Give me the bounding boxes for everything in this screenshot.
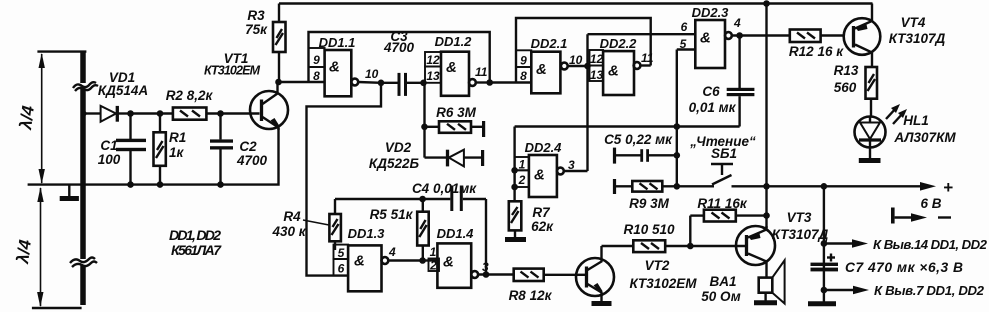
ground C7 [808,301,836,306]
svg-text:&: & [329,59,340,76]
svg-text:DD1.1: DD1.1 [319,35,356,50]
pin 6 box DD1.3 [334,259,349,276]
op gate DD1.2 [441,52,476,96]
node dots bottom row [127,181,134,188]
resistor R1 [154,114,166,185]
ground R7 [505,237,526,242]
svg-text:BA1: BA1 [709,274,736,289]
svg-text:C1: C1 [100,138,117,153]
resistor R8 [514,269,576,281]
transistor VT2 [576,246,614,302]
svg-text:9: 9 [313,53,320,67]
svg-text:R12 16 к: R12 16 к [789,44,844,59]
svg-text:R3: R3 [247,8,265,23]
pin 8 box DD1.1 [309,67,325,83]
node plus line / C7 [821,183,828,190]
svg-text:R13: R13 [834,63,859,78]
svg-text:С5 0,22 мк: С5 0,22 мк [604,132,673,147]
pin 9 box DD2.1 [516,50,531,67]
svg-text:АЛ307КМ: АЛ307КМ [893,130,956,145]
svg-text:К Выв.14 DD1, DD2: К Выв.14 DD1, DD2 [873,237,988,252]
svg-text:R5 51к: R5 51к [370,207,414,222]
arrow K vyv 14 [824,239,868,248]
top supply bus [279,2,873,4]
pin 12 box DD1.2 [425,52,441,67]
svg-text:С7 470 мк ×6,3 В: С7 470 мк ×6,3 В [845,260,963,275]
svg-text:SБ1: SБ1 [711,146,737,161]
resistor R11 [690,210,766,246]
svg-text:К Выв.7 DD1, DD2: К Выв.7 DD1, DD2 [874,283,985,298]
ground symbol near antenna [60,185,79,199]
svg-text:R8 12к: R8 12к [509,288,553,303]
arrow K vyv 7 [824,286,869,295]
capacitor C3 [381,73,424,96]
antenna top tick [37,50,86,52]
node DD2.3 out / C6 [736,32,743,39]
svg-text:100: 100 [98,152,121,167]
svg-text:&: & [443,254,454,271]
wire DD2.3 out, pin 4 [732,16,790,36]
svg-text:75к: 75к [245,22,268,37]
gate DD2.1 feedback frame wire [516,18,651,83]
svg-text:С6: С6 [702,84,720,99]
svg-text:R1: R1 [169,130,186,145]
antenna bottom tick [32,307,82,309]
minus terminal [891,208,951,224]
ground BA1 [754,300,777,305]
node R11 right on rail [763,212,770,219]
op gate DD1.4 [437,243,478,287]
svg-text:11: 11 [475,65,488,79]
svg-text:8: 8 [520,69,527,83]
wire to DD1.4 inputs [423,259,438,261]
resistor R7 [509,201,522,238]
svg-text:DD1.2: DD1.2 [435,34,473,49]
svg-text:5: 5 [338,246,345,260]
wire DD1.2 out, pin 11 [475,65,490,83]
svg-text:&: & [446,59,457,76]
svg-text:VT4: VT4 [901,15,926,30]
capacitor C7 [811,254,839,272]
svg-text:R9 3М: R9 3М [629,196,670,211]
svg-text:6: 6 [681,20,688,34]
svg-text:2: 2 [518,173,526,187]
wire collector to DD1.1 [279,81,325,83]
resistor R10 [602,240,746,252]
ground HL1 [859,158,881,163]
svg-text:&: & [700,30,711,47]
diode VD2 [425,150,485,167]
svg-text:КТ3102ЕМ: КТ3102ЕМ [204,64,261,78]
op gate DD1.3 [348,245,388,291]
svg-text:62к: 62к [531,219,554,234]
svg-text:&: & [354,253,365,270]
node R10 / R11 [687,243,694,250]
light arrows HL1 [886,104,907,124]
pin 1 box DD2.4 [515,157,529,172]
node rail / plus line [763,183,770,190]
C7 branch vertical [823,186,825,302]
svg-text:4700: 4700 [236,153,268,168]
svg-text:КТ3102ЕМ: КТ3102ЕМ [630,276,698,291]
wire DD1.1 out, pin 10 [358,67,381,83]
wire DD2.2 out, pin 11 [640,51,653,66]
transistor VT3 [736,226,775,278]
node K vyv 7 [821,287,828,294]
node C5 right [674,152,681,159]
node DD1.2 out [486,79,493,86]
op gate DD1.1 [325,50,359,96]
svg-text:10: 10 [569,53,583,67]
op gate DD2.1 [531,52,567,94]
capacitor C5 [613,148,677,164]
svg-text:430 к: 430 к [271,224,306,239]
op gate DD2.2 [603,51,640,95]
gate DD1.1 feedback frame wire [309,32,490,83]
svg-text:DD2.3: DD2.3 [692,5,730,20]
dimension line lower lambda/4 [37,187,44,307]
svg-text:КТ3107Д: КТ3107Д [889,31,946,46]
transistor VT1 [250,82,288,130]
svg-text:R6 3М: R6 3М [436,105,477,120]
pin 13 box DD1.2 [425,67,441,84]
node C3 / DD1.2 inputs [420,80,427,87]
svg-text:HL1: HL1 [903,113,929,128]
svg-text:1: 1 [430,245,437,259]
resistor R2 [173,108,207,120]
pin 2 box DD2.4 [515,170,529,187]
svg-text:10: 10 [365,67,379,81]
svg-text:&: & [536,61,547,78]
svg-text:11: 11 [641,51,654,65]
svg-text:4700: 4700 [383,40,415,55]
svg-text:5: 5 [680,37,687,51]
op gate DD2.3 [695,20,732,68]
wire DD2.1 out, pin 10 [568,53,588,67]
LED HL1 [855,117,886,159]
svg-text:12: 12 [590,52,604,66]
ground VT2 emitter [592,301,612,306]
capacitor C1 [116,114,146,185]
svg-text:0,01 мк: 0,01 мк [689,100,737,115]
svg-text:КД514А: КД514А [98,83,148,98]
wire DD1.4 out, pin 3 [478,260,514,275]
node after DD1.1 [378,80,385,87]
transistor VT4 [844,4,881,68]
svg-text:КД522Б: КД522Б [369,156,420,171]
svg-text:2: 2 [429,259,437,273]
node R6 left [421,124,428,131]
wire DD1.2 inputs down to R6/VD2 [423,83,425,158]
resistor R4 [329,199,341,250]
pin 2 box DD1.4 [429,259,440,273]
svg-text:1к: 1к [169,145,185,160]
wire DD1.1 out down-left to DD1.3 [307,83,382,276]
svg-text:R4: R4 [283,209,301,224]
pin 5 box DD1.3 [334,245,349,260]
wire R4 top to C4 [335,198,450,200]
node pin1 DD2.4 [511,167,518,174]
op gate DD2.4 [529,155,564,197]
svg-text:DD1.4: DD1.4 [437,226,475,241]
svg-text:R7: R7 [532,205,551,220]
wire DD1.2 out to DD2.1 [490,81,532,83]
svg-text:R2 8,2к: R2 8,2к [166,88,214,103]
supply rail vertical [765,4,767,229]
svg-text:6 В: 6 В [920,196,941,211]
node DD1.3 out [419,257,426,264]
svg-text:C2: C2 [239,139,257,154]
svg-text:3: 3 [568,158,575,172]
svg-text:DD2.2: DD2.2 [600,36,638,51]
svg-text:R11 16к: R11 16к [697,196,748,211]
svg-text:VT2: VT2 [645,258,670,273]
svg-text:К561ЛА7: К561ЛА7 [171,242,222,258]
node DD1.4 out / C4 [483,271,490,278]
svg-text:VD2: VD2 [385,140,412,155]
svg-text:R10 510: R10 510 [623,222,675,237]
svg-text:&: & [608,63,619,80]
capacitor C2 [210,114,233,185]
node K vyv 14 [821,240,828,247]
wire VD1 to R2 to VT1 base [131,112,173,114]
svg-text:12: 12 [426,53,440,67]
svg-text:4: 4 [388,245,396,259]
svg-text:DD2.4: DD2.4 [525,140,563,155]
pin 8 box DD2.1 [516,67,531,83]
svg-text:50 Ом: 50 Ом [701,289,740,304]
wire antenna to VD1 [85,112,101,114]
wire DD1.3 out, pin 4 [388,245,423,261]
wire DD2.4 out, pin 3 [564,158,588,172]
svg-text:13: 13 [426,69,440,83]
resistor R6 [425,121,486,137]
node VT1 collector [275,79,282,86]
svg-text:DD1, DD2: DD1, DD2 [169,227,221,243]
resistor R13 [866,67,878,117]
svg-text:DD1.3: DD1.3 [348,226,386,241]
wire DD2.4 inputs horizontal [515,125,740,127]
node R5 top [419,196,426,203]
capacitor C4 [450,186,486,275]
resistor R3 [273,4,286,83]
pin 12 box DD2.2 [590,50,604,66]
svg-text:λ/4: λ/4 [16,104,38,131]
node R9 right [674,183,681,190]
switch SB1 [711,164,733,185]
resistor R9 [613,179,714,194]
wire to DD2.3 pin 6 [588,20,696,34]
diode VD1 [101,106,131,122]
plus supply line with arrow [732,178,954,197]
dimension line upper lambda/4 [39,53,45,184]
svg-text:6: 6 [338,262,345,276]
svg-text:13: 13 [590,68,604,82]
wire DD2.3 pin 5 stub [677,37,696,51]
svg-text:8: 8 [313,69,320,83]
svg-text:9: 9 [520,54,527,68]
speaker BA1 [759,260,785,303]
vertical net DD2 inputs [586,34,588,171]
vertical C5/R9/pin5 [676,50,678,187]
resistor R12 [790,30,844,43]
antenna mast WA [70,52,98,305]
svg-text:λ/4: λ/4 [13,238,35,265]
pointer line R4 label [303,220,329,225]
svg-text:&: & [534,167,545,184]
ground bus wire (left) [28,128,279,185]
node DD2.1 out [584,63,591,70]
svg-text:4: 4 [733,16,741,30]
pin 9 box DD1.1 [309,48,325,67]
node pin2 DD2.4 [511,184,518,191]
svg-text:+: + [943,178,953,197]
vertical DD2.4 input [513,127,515,202]
svg-text:КТ3107Д: КТ3107Д [772,227,829,242]
svg-text:С4 0,01мк: С4 0,01мк [412,181,477,196]
svg-text:560: 560 [834,80,857,95]
node C6 bottom [674,123,681,130]
pin 13 box DD2.2 [590,66,604,83]
resistor R5 [417,199,429,260]
svg-text:VT3: VT3 [787,210,812,225]
capacitor C6 [727,36,755,127]
node dots top row [127,110,134,117]
svg-text:DD2.1: DD2.1 [531,36,568,51]
